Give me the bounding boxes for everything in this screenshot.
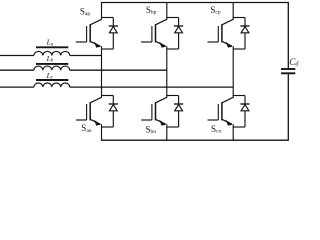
IGBT Scp emitter diagonal (222, 41, 232, 46)
IGBT Sap gate lead (76, 41, 87, 43)
diode DScn triangle (241, 105, 249, 111)
wire San emitter-to-diode bottom (102, 126, 114, 128)
IGBT Scp collector diagonal (222, 19, 234, 25)
diode DSbp cathode bar (174, 25, 183, 27)
IGBT Scn emitter diagonal (222, 119, 232, 124)
wire Scn emitter-to-diode bottom (233, 126, 245, 128)
IGBT San gate lead (76, 119, 87, 121)
wire phase b to leg 2 (70, 69, 167, 71)
wire leg 1 to bottom rail (101, 124, 103, 140)
wire Scp collector-to-diode top (233, 17, 245, 19)
IGBT Sap body bar (89, 24, 91, 42)
diode DSan cathode bar (109, 103, 118, 105)
IGBT Scn body bar (221, 102, 223, 120)
IGBT Scp emitter arrowhead (226, 42, 233, 48)
wire phase b input stub (0, 69, 34, 71)
wire leg 2 midsection (phase b node) (166, 46, 168, 97)
diode DSbn vertical lead (178, 96, 180, 128)
bottom DC- rail (101, 139, 289, 141)
inductor La coil (34, 51, 70, 55)
IGBT Sbn collector diagonal (156, 97, 168, 103)
diode DSan vertical lead (112, 96, 114, 128)
IGBT Sbn gate bar (151, 104, 153, 120)
diode DScp cathode bar (240, 25, 249, 27)
wire Sbn collector-to-diode top (166, 95, 178, 97)
top DC+ rail (101, 2, 289, 4)
IGBT Scn gate lead (208, 119, 219, 121)
IGBT Sbn body bar (155, 102, 157, 120)
IGBT Sap gate bar (86, 26, 88, 42)
wire leg 3 midsection (phase c node) (232, 46, 234, 97)
wire capacitor Cd to bottom rail (287, 74, 289, 140)
IGBT Sbp gate lead (141, 41, 152, 43)
IGBT Sbp emitter arrowhead (159, 42, 166, 48)
wire Sbn emitter-to-diode bottom (167, 126, 179, 128)
diode DScn cathode bar (240, 103, 249, 105)
IGBT Sap emitter arrowhead (94, 42, 101, 48)
wire Sbp collector-to-diode top (166, 17, 178, 19)
IGBT Sap emitter diagonal (90, 41, 100, 46)
diode DScn vertical lead (244, 96, 246, 128)
IGBT Sbn emitter arrowhead (159, 120, 166, 126)
IGBT Scp gate bar (217, 26, 219, 42)
IGBT Sap collector diagonal (90, 19, 102, 25)
wire leg 3 top rail to switch Scp (232, 3, 234, 20)
inductor Lb core bar (36, 63, 68, 65)
diode DSap cathode bar (109, 25, 118, 27)
IGBT Sbp emitter diagonal (156, 41, 166, 46)
diode DScp triangle (241, 27, 249, 33)
IGBT Sbp gate bar (151, 26, 153, 42)
wire leg 1 midsection (phase a node) (101, 46, 103, 97)
wire Scp emitter-to-diode bottom (233, 48, 245, 50)
IGBT Scp body bar (221, 24, 223, 42)
diode DSbp vertical lead (178, 18, 180, 50)
IGBT San gate bar (86, 104, 88, 120)
wire phase a input stub (0, 55, 34, 57)
IGBT Sbn gate lead (141, 119, 152, 121)
diode DSbn triangle (175, 105, 183, 111)
inductor Lc coil (34, 83, 70, 87)
IGBT San collector diagonal (90, 97, 102, 103)
inductor Lc core bar (36, 79, 68, 81)
inductor Lb coil (34, 66, 70, 70)
IGBT Scn collector diagonal (222, 97, 234, 103)
diode DSbn cathode bar (174, 103, 183, 105)
IGBT Sbp body bar (155, 24, 157, 42)
IGBT Scn gate bar (217, 104, 219, 120)
wire leg 2 to bottom rail (166, 124, 168, 140)
wire Scn collector-to-diode top (233, 95, 245, 97)
wire phase c to leg 3 (70, 86, 234, 88)
diode DScp vertical lead (244, 18, 246, 50)
IGBT Sbn emitter diagonal (156, 119, 166, 124)
diode DSap triangle (109, 27, 117, 33)
wire leg 3 to bottom rail (232, 124, 234, 140)
wire San collector-to-diode top (101, 95, 113, 97)
IGBT Sbp collector diagonal (156, 19, 168, 25)
diode DSap vertical lead (112, 18, 114, 50)
diode DSan triangle (109, 105, 117, 111)
IGBT Scp gate lead (208, 41, 219, 43)
wire phase a to leg 1 (70, 55, 102, 57)
diode DSbp triangle (175, 27, 183, 33)
IGBT San body bar (89, 102, 91, 120)
wire leg 2 top rail to switch Sbp (166, 3, 168, 20)
inductor La core bar (36, 46, 68, 48)
wire top rail to capacitor Cd (287, 3, 289, 69)
IGBT San emitter arrowhead (94, 120, 101, 126)
capacitor Cd top plate (281, 68, 295, 70)
wire Sap collector-to-diode top (101, 17, 113, 19)
wire Sbp emitter-to-diode bottom (167, 48, 179, 50)
capacitor Cd bottom plate (281, 72, 295, 74)
IGBT Scn emitter arrowhead (226, 120, 233, 126)
wire phase c input stub (0, 86, 34, 88)
wire leg 1 top rail to switch Sap (101, 3, 103, 20)
wire Sap emitter-to-diode bottom (102, 48, 114, 50)
IGBT San emitter diagonal (90, 119, 100, 124)
